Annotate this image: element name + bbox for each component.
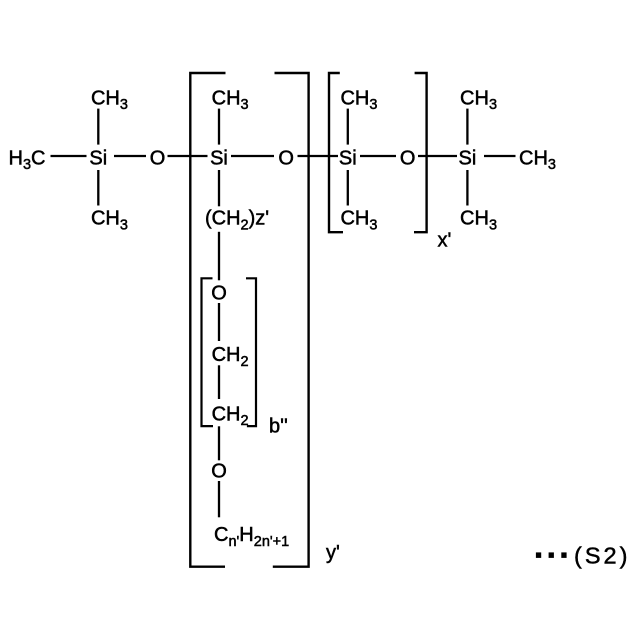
bracket y' left xyxy=(190,73,225,567)
wire bond CH2-O vertical xyxy=(218,426,220,460)
bracket b'' left xyxy=(202,278,214,426)
svg-text:x': x' xyxy=(438,229,452,251)
wire bond H3C-Si1 xyxy=(51,155,87,157)
wire bond Si3-O3 xyxy=(360,155,396,157)
svg-text:b'': b'' xyxy=(269,416,288,438)
wire bond CH3-Si2 vertical top xyxy=(218,109,220,145)
wire bond CH3-Si4 vertical top xyxy=(466,109,468,145)
wire bond O1-Si2 xyxy=(168,155,208,157)
wire bond Si1-CH3 vertical bottom xyxy=(97,170,99,206)
dots ellipsis before S2 xyxy=(536,552,567,558)
wire bond O-CnH2n+1 vertical xyxy=(218,481,220,517)
bracket y' right xyxy=(273,73,309,567)
wire bond Si3-CH3 vertical bottom xyxy=(347,170,349,206)
wire bond O2-Si3 xyxy=(298,155,339,157)
bracket x' left xyxy=(329,73,343,232)
wire bond Si4-CH3 vertical bottom xyxy=(466,170,468,206)
svg-text:O: O xyxy=(211,283,227,305)
svg-text:Si: Si xyxy=(339,147,357,169)
wire bond Si2-(CH2)z' vertical xyxy=(218,170,220,206)
wire bond CH3-Si1 vertical top xyxy=(97,109,99,145)
wire bond Si1-O1 xyxy=(114,155,146,157)
svg-text:Si: Si xyxy=(459,147,477,169)
svg-text:O: O xyxy=(150,147,166,169)
wire bond CH3-Si3 vertical top xyxy=(347,109,349,145)
bracket x' right xyxy=(414,73,427,232)
wire bond O-CH2 vertical xyxy=(218,303,220,341)
svg-text:O: O xyxy=(211,461,227,483)
wire bond CH2-CH2 vertical xyxy=(218,365,220,399)
wire bond Si4-CH3 xyxy=(484,155,516,157)
bracket b'' right xyxy=(246,278,256,426)
svg-text:y': y' xyxy=(326,542,340,564)
svg-text:Si: Si xyxy=(89,147,107,169)
svg-text:(S2): (S2) xyxy=(574,543,630,569)
svg-text:O: O xyxy=(278,147,294,169)
svg-text:O: O xyxy=(400,147,416,169)
wire bond (CH2)z'-O vertical xyxy=(218,232,220,280)
svg-text:(CH2)z': (CH2)z' xyxy=(205,208,269,234)
svg-text:Si: Si xyxy=(210,147,228,169)
wire bond O3-Si4 xyxy=(418,155,457,157)
wire bond Si2-O2 xyxy=(231,155,274,157)
